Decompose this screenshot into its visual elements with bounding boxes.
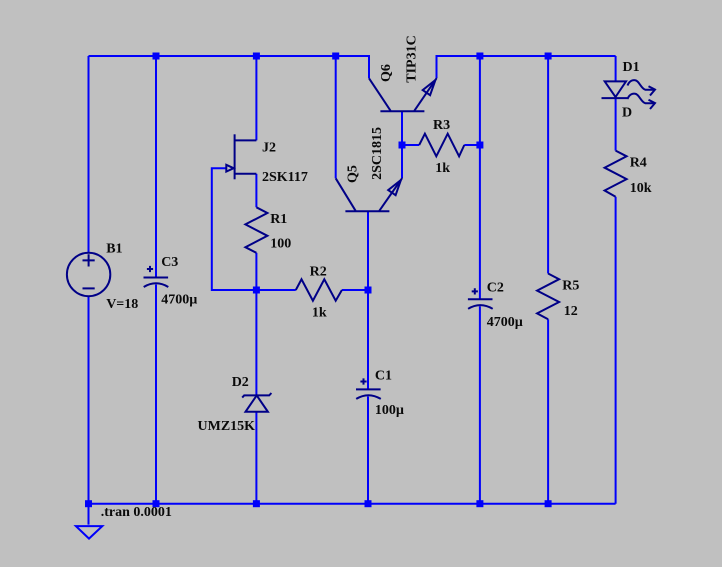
wire J2 source to R1 — [255, 174, 257, 208]
wire J2 gate loop — [212, 168, 257, 290]
resistor R4 — [605, 151, 627, 197]
svg-text:100µ: 100µ — [375, 403, 404, 418]
wire Q5 collector — [335, 56, 337, 178]
svg-text:V=18: V=18 — [106, 297, 138, 312]
node top rail J2 — [253, 53, 260, 60]
wire R1 to node — [255, 253, 257, 290]
resistor R3 — [419, 134, 464, 157]
wire top-right output rail — [437, 56, 616, 78]
wire Q6 base — [401, 111, 403, 145]
svg-text:D1: D1 — [623, 60, 640, 75]
svg-text:C3: C3 — [161, 255, 178, 270]
node gnd C2 — [476, 500, 483, 507]
svg-text:1k: 1k — [435, 161, 450, 176]
node gnd R5 — [545, 500, 552, 507]
svg-text:12: 12 — [564, 304, 578, 319]
svg-text:B1: B1 — [106, 242, 122, 257]
wire C3 column bottom — [155, 285, 157, 504]
svg-text:1k: 1k — [312, 306, 327, 321]
wire R5 column bottom — [547, 319, 549, 504]
node out rail R5 — [545, 53, 552, 60]
capacitor C2 — [468, 298, 493, 300]
wire R4 to ground — [615, 197, 617, 504]
node R3 C2 — [476, 142, 483, 149]
node gnd C1 — [365, 500, 372, 507]
wire D1 to R4 — [615, 98, 617, 151]
node gnd D2 — [253, 500, 260, 507]
wire ground rail — [89, 503, 616, 505]
wire C3 column top — [155, 56, 157, 278]
svg-text:10k: 10k — [630, 181, 652, 196]
wire top-left V+ rail — [89, 56, 370, 78]
svg-text:UMZ15K: UMZ15K — [198, 419, 256, 434]
node gnd C3 — [153, 500, 160, 507]
transistor Q6 — [380, 110, 424, 112]
wire J2 drain column — [255, 56, 257, 140]
svg-text:4700µ: 4700µ — [487, 315, 523, 330]
wire R2 right lead — [342, 289, 368, 291]
svg-text:D: D — [622, 105, 632, 120]
wire right edge D1 top lead — [615, 56, 617, 81]
wire D2 to ground — [255, 412, 257, 504]
wire left edge B1 top — [88, 56, 90, 253]
wire Q5 emitter to node — [401, 145, 403, 178]
voltage source B1 — [67, 253, 110, 296]
svg-text:R1: R1 — [270, 212, 287, 227]
svg-text:D2: D2 — [232, 375, 249, 390]
JFET J2 — [234, 134, 236, 179]
wire C1 bottom lead — [367, 397, 369, 504]
node R2 right — [365, 287, 372, 294]
capacitor C1 — [356, 388, 381, 390]
resistor R1 — [245, 207, 267, 253]
wire node to D2 — [255, 290, 257, 395]
svg-text:R3: R3 — [433, 118, 450, 133]
LED light arrow upper — [628, 80, 654, 90]
wire C2 column top — [479, 56, 481, 299]
svg-text:TIP31C: TIP31C — [404, 35, 419, 82]
wire C2 column bottom — [479, 306, 481, 503]
svg-text:R4: R4 — [630, 156, 647, 171]
wire left edge B1 bottom — [88, 296, 90, 524]
svg-text:.tran 0.0001: .tran 0.0001 — [101, 505, 172, 520]
wire Q5 base — [367, 212, 369, 290]
wire C1 top lead — [367, 290, 369, 389]
zener D2 — [242, 393, 271, 398]
resistor R5 — [537, 274, 559, 320]
transistor Q5 — [345, 210, 389, 212]
svg-text:R5: R5 — [562, 278, 579, 293]
capacitor C3 — [144, 277, 169, 279]
svg-text:4700µ: 4700µ — [161, 293, 197, 308]
wire R2 left lead — [256, 289, 295, 291]
node top rail C3 — [153, 53, 160, 60]
svg-text:C1: C1 — [375, 369, 392, 384]
resistor R2 — [296, 279, 342, 300]
node top rail Q5 — [332, 53, 339, 60]
node gnd B1 — [85, 500, 92, 507]
svg-text:2SK117: 2SK117 — [262, 170, 308, 185]
svg-text:100: 100 — [270, 237, 291, 252]
svg-text:Q6: Q6 — [379, 64, 394, 82]
svg-text:J2: J2 — [262, 141, 276, 156]
wire R3 left lead — [402, 144, 419, 146]
node R2 left — [253, 287, 260, 294]
wire R3 right lead — [464, 144, 480, 146]
LED D1 — [605, 81, 626, 97]
ground — [76, 526, 102, 539]
svg-text:Q5: Q5 — [346, 165, 361, 183]
node out rail C2 — [476, 53, 483, 60]
svg-text:C2: C2 — [487, 281, 504, 296]
node Q6 base R3 — [399, 142, 406, 149]
svg-text:R2: R2 — [310, 265, 327, 280]
LED light arrow lower — [628, 94, 654, 104]
wire R5 column top — [547, 56, 549, 274]
svg-text:2SC1815: 2SC1815 — [370, 127, 385, 180]
